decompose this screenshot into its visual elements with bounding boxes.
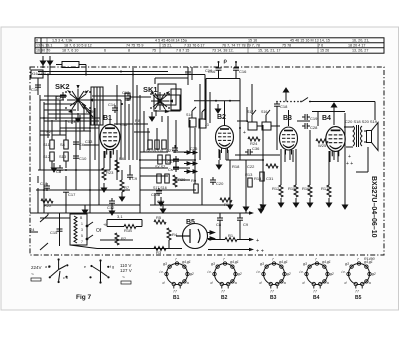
svg-text:S16: S16 xyxy=(261,110,267,114)
svg-text:18 7, 6 10 5 8 12: 18 7, 6 10 5 8 12 xyxy=(64,44,92,48)
svg-text:C27: C27 xyxy=(166,148,174,153)
svg-text:C36: C36 xyxy=(252,146,260,151)
svg-text:R9: R9 xyxy=(191,178,197,183)
svg-text:24: 24 xyxy=(30,227,35,232)
svg-text:R5: R5 xyxy=(156,215,162,220)
svg-text:R12: R12 xyxy=(272,186,280,191)
svg-text:1: 1 xyxy=(81,222,83,226)
svg-text:S17: S17 xyxy=(247,110,253,114)
svg-text:74 75 75 9: 74 75 75 9 xyxy=(126,44,143,48)
svg-text:B3: B3 xyxy=(283,115,292,122)
svg-text:C6: C6 xyxy=(79,142,85,147)
svg-text:C9: C9 xyxy=(243,222,249,227)
svg-text:Fig 7: Fig 7 xyxy=(76,294,92,301)
svg-text:75: 75 xyxy=(152,49,156,53)
svg-text:S8 S9 S10: S8 S9 S10 xyxy=(146,149,163,153)
svg-text:76 7, 74 77 78 79 7, 78: 76 7, 74 77 78 79 7, 78 xyxy=(222,44,260,48)
svg-text:R6: R6 xyxy=(119,156,125,161)
svg-text:R13: R13 xyxy=(245,172,253,177)
svg-text:~: ~ xyxy=(122,275,125,281)
svg-text:B5: B5 xyxy=(355,295,362,301)
svg-text:C19: C19 xyxy=(310,116,318,121)
svg-text:C17: C17 xyxy=(167,159,175,164)
svg-text:+b: +b xyxy=(103,222,108,227)
svg-text:~: ~ xyxy=(31,272,34,278)
svg-text:e: e xyxy=(84,265,86,269)
svg-text:15 26: 15 26 xyxy=(320,49,329,53)
svg-text:S13: S13 xyxy=(59,154,67,159)
svg-text:R7: R7 xyxy=(124,185,130,190)
svg-text:S11: S11 xyxy=(43,142,51,147)
svg-text:7 8 7 15: 7 8 7 15 xyxy=(176,49,189,53)
svg-text:R17: R17 xyxy=(321,186,329,191)
svg-text:C9: C9 xyxy=(132,176,138,181)
svg-text:R3: R3 xyxy=(156,250,162,255)
svg-text:45 46 15 16 M 13 14, 15: 45 46 15 16 M 13 14, 15 xyxy=(290,39,330,43)
svg-text:f g: f g xyxy=(110,265,114,269)
svg-text:15 21,: 15 21, xyxy=(162,44,172,48)
svg-text:R16: R16 xyxy=(302,186,310,191)
svg-text:SK2: SK2 xyxy=(55,82,70,91)
svg-text:a b: a b xyxy=(45,265,50,269)
svg-text:R1: R1 xyxy=(228,233,234,238)
svg-text:C20: C20 xyxy=(216,181,224,186)
svg-text:0: 0 xyxy=(36,39,38,43)
svg-text:X16/1460: X16/1460 xyxy=(32,72,47,76)
svg-text:4↑: 4↑ xyxy=(84,89,88,94)
svg-text:C16: C16 xyxy=(31,87,39,92)
svg-text:C16: C16 xyxy=(208,69,216,74)
svg-text:7 6: 7 6 xyxy=(318,44,323,48)
svg-text:5: 5 xyxy=(81,234,83,238)
svg-text:B1: B1 xyxy=(103,115,112,122)
svg-text:J3: J3 xyxy=(205,123,209,127)
svg-text:6: 6 xyxy=(104,49,106,53)
svg-text:C18: C18 xyxy=(280,104,288,109)
svg-text:BX327U–04–06–10: BX327U–04–06–10 xyxy=(370,176,377,238)
svg-text:3: 3 xyxy=(81,228,83,232)
svg-text:R22: R22 xyxy=(44,203,52,208)
svg-text:C8: C8 xyxy=(216,222,222,227)
svg-text:C28: C28 xyxy=(151,192,159,197)
svg-text:C22: C22 xyxy=(247,164,255,169)
svg-text:R1B: R1B xyxy=(124,228,132,233)
svg-text:C16: C16 xyxy=(239,69,247,74)
svg-text:+: + xyxy=(243,130,246,136)
svg-text:C31: C31 xyxy=(266,176,274,181)
svg-text:B1: B1 xyxy=(173,295,180,301)
svg-text:W25: W25 xyxy=(318,143,327,148)
svg-text:13, 26, 27: 13, 26, 27 xyxy=(352,49,368,53)
svg-text:C14: C14 xyxy=(108,102,116,107)
svg-text:ρ: ρ xyxy=(224,59,228,65)
svg-text:C20 S18 S20 S19: C20 S18 S20 S19 xyxy=(345,119,378,124)
svg-text:16 90 70: 16 90 70 xyxy=(36,49,50,53)
svg-text:R19: R19 xyxy=(86,109,94,114)
svg-text:Cs: Cs xyxy=(168,167,173,172)
svg-text:18 7, 6 10: 18 7, 6 10 xyxy=(62,49,78,53)
svg-text:S2: S2 xyxy=(46,129,52,134)
svg-text:R20: R20 xyxy=(178,177,186,182)
svg-text:C25: C25 xyxy=(190,146,198,151)
svg-text:15 16: 15 16 xyxy=(248,39,257,43)
svg-text:13 ¾ 19,1: 13 ¾ 19,1 xyxy=(36,44,52,48)
svg-text:R18: R18 xyxy=(232,164,240,169)
svg-text:7: 7 xyxy=(81,240,83,244)
svg-text:C17: C17 xyxy=(68,192,76,197)
svg-text:18 20 4 17: 18 20 4 17 xyxy=(348,44,365,48)
svg-text:+: + xyxy=(348,154,351,160)
svg-text:75 78: 75 78 xyxy=(282,44,291,48)
svg-text:c d: c d xyxy=(63,276,68,280)
svg-text:B4: B4 xyxy=(313,295,320,301)
svg-text:SY SZ: SY SZ xyxy=(155,165,166,169)
svg-text:1,5 3 4, 7,9k: 1,5 3 4, 7,9k xyxy=(52,39,72,43)
svg-text:C18: C18 xyxy=(40,181,48,186)
svg-text:C3: C3 xyxy=(56,95,62,100)
svg-text:73 14, 38 12,: 73 14, 38 12, xyxy=(212,49,234,53)
svg-text:C13: C13 xyxy=(85,139,93,144)
svg-text:16, 20, 21,: 16, 20, 21, xyxy=(352,39,369,43)
svg-text:S14: S14 xyxy=(186,113,192,117)
svg-text:+ +: + + xyxy=(346,161,353,167)
svg-text:C28: C28 xyxy=(310,125,318,130)
svg-text:B2: B2 xyxy=(221,295,228,301)
svg-text:224V: 224V xyxy=(31,265,42,270)
svg-text:C15: C15 xyxy=(50,230,58,235)
svg-text:B5: B5 xyxy=(186,219,195,226)
svg-text:C10: C10 xyxy=(79,156,87,161)
svg-text:R14: R14 xyxy=(254,176,262,181)
svg-text:Of: Of xyxy=(96,228,102,234)
svg-text:SK1: SK1 xyxy=(143,85,158,94)
svg-text:C12: C12 xyxy=(107,205,115,210)
svg-text:B2: B2 xyxy=(217,114,226,121)
svg-text:R15: R15 xyxy=(288,186,296,191)
svg-text:R10: R10 xyxy=(224,202,232,207)
svg-text:C15: C15 xyxy=(120,122,128,127)
svg-text:B3: B3 xyxy=(270,295,277,301)
svg-text:+: + xyxy=(256,238,259,244)
svg-text:7 33 76 6 17: 7 33 76 6 17 xyxy=(184,44,205,48)
svg-text:3,1: 3,1 xyxy=(117,214,123,219)
svg-text:R4: R4 xyxy=(172,232,178,237)
svg-text:S4: S4 xyxy=(60,142,66,147)
svg-text:8: 8 xyxy=(128,49,130,53)
svg-text:4 5 45 46 M 14 15a: 4 5 45 46 M 14 15a xyxy=(155,39,188,43)
svg-text:R2: R2 xyxy=(121,236,127,241)
svg-text:+ +: + + xyxy=(256,249,264,255)
svg-text:R23: R23 xyxy=(106,170,114,175)
svg-text:127 V: 127 V xyxy=(120,268,132,273)
svg-text:15, 16, 21, 17: 15, 16, 21, 17 xyxy=(258,49,281,53)
svg-text:B4: B4 xyxy=(322,115,331,122)
svg-text:S17 S16: S17 S16 xyxy=(153,186,167,190)
svg-text:S12: S12 xyxy=(43,154,51,159)
